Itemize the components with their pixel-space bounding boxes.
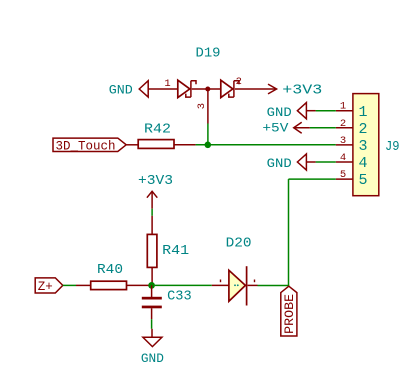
wire 3D_Touch to R42 bbox=[126, 144, 138, 146]
wire Z+ to R40 bbox=[63, 284, 76, 286]
svg-text:GND: GND bbox=[267, 105, 292, 120]
wire pin3 down to node bbox=[207, 124, 209, 145]
wire R42 node to J9 pin3 bbox=[196, 144, 336, 146]
ground GND flag (J9 pin4) bbox=[267, 154, 316, 171]
svg-text:+5V: +5V bbox=[262, 121, 288, 136]
svg-text:Z+: Z+ bbox=[38, 280, 53, 294]
wire D19A cathode to center node bbox=[192, 88, 208, 90]
ground GND flag (left of D19) bbox=[109, 81, 148, 98]
wire J9 pin5 horizontal bbox=[289, 178, 336, 180]
power +3V3 (above R41) bbox=[138, 173, 173, 209]
junction node (R40/R41/C33/D20) bbox=[148, 282, 155, 289]
wire +3V3 to R41 bbox=[151, 209, 153, 216]
svg-text:2: 2 bbox=[236, 76, 242, 88]
capacitor C33 bbox=[142, 289, 192, 309]
wire D19B cathode to +3V3 bbox=[235, 88, 277, 90]
svg-text:GND: GND bbox=[141, 351, 164, 366]
pin R41 bottom to node bbox=[151, 267, 153, 285]
wire center node to D19B anode bbox=[208, 88, 221, 90]
resistor R42 bbox=[138, 121, 174, 148]
wire pin1 of D19 to GND bbox=[148, 88, 178, 90]
svg-text:R40: R40 bbox=[97, 262, 123, 278]
power +3V3 arrow (right) bbox=[268, 82, 322, 98]
svg-text:2: 2 bbox=[340, 118, 346, 130]
J9 pin 3 stub bbox=[336, 144, 353, 146]
resistor R40 bbox=[91, 262, 127, 290]
wire J9 pin5 vertical down to PROBE node bbox=[288, 179, 290, 285]
svg-text:1: 1 bbox=[358, 104, 367, 121]
ground GND flag (J9 pin1) bbox=[267, 103, 316, 120]
pin R40 right to node bbox=[127, 284, 152, 286]
svg-text:1: 1 bbox=[164, 78, 170, 90]
svg-text:3: 3 bbox=[358, 138, 367, 155]
svg-text:5: 5 bbox=[340, 169, 346, 181]
diode D19A (schottky) bbox=[178, 80, 196, 97]
svg-text:+3V3: +3V3 bbox=[282, 82, 322, 98]
resistor R41 bbox=[147, 234, 189, 267]
connector J9 body bbox=[353, 94, 400, 196]
svg-text:GND: GND bbox=[267, 156, 292, 171]
svg-text:R41: R41 bbox=[162, 243, 189, 259]
wire J9 pin4 to GND bbox=[316, 161, 336, 163]
pin of R42 to wire bbox=[174, 144, 196, 146]
diode D19B (schottky) bbox=[221, 80, 239, 97]
diode D20 bbox=[226, 236, 252, 306]
pin C33 top bbox=[151, 285, 153, 297]
pin tick mark left D20 bbox=[220, 280, 222, 283]
svg-text:GND: GND bbox=[109, 82, 133, 97]
svg-text:+3V3: +3V3 bbox=[138, 173, 173, 189]
junction dot D19 pin3 node bbox=[205, 87, 210, 92]
svg-text:3: 3 bbox=[340, 135, 346, 147]
svg-text:PROBE: PROBE bbox=[283, 294, 297, 334]
J9 pin 4 stub bbox=[336, 161, 353, 163]
svg-text:D19: D19 bbox=[196, 46, 221, 62]
svg-text:1: 1 bbox=[340, 101, 346, 113]
power +5V arrow bbox=[262, 121, 309, 136]
svg-text:3D_Touch: 3D_Touch bbox=[55, 139, 115, 153]
junction node (R42 / pin3) bbox=[205, 142, 212, 149]
wire D20 to PROBE node bbox=[258, 285, 290, 287]
wire C33 to GND bbox=[151, 319, 153, 329]
svg-text:D20: D20 bbox=[226, 236, 252, 252]
wire J9 pin1 to GND bbox=[316, 110, 336, 112]
pin R40 left bbox=[76, 284, 91, 286]
global label 3D_Touch bbox=[53, 138, 126, 153]
global label PROBE (vertical) bbox=[281, 286, 297, 336]
pin D20 cathode bbox=[248, 284, 258, 286]
svg-text:4: 4 bbox=[358, 155, 367, 172]
pin 3 of D19 (vertical) bbox=[207, 89, 209, 124]
svg-text:J9: J9 bbox=[385, 140, 400, 155]
svg-text:2: 2 bbox=[358, 121, 367, 138]
pin C33 bottom bbox=[151, 308, 153, 319]
svg-text:C33: C33 bbox=[167, 289, 192, 305]
svg-text:4: 4 bbox=[340, 152, 346, 164]
J9 pin 2 stub bbox=[336, 127, 353, 129]
pin tick mark right D20 bbox=[254, 280, 256, 283]
pin R41 top bbox=[151, 216, 153, 235]
wire J9 pin2 to +5V bbox=[310, 127, 336, 129]
global label Z+ bbox=[35, 278, 63, 294]
svg-text:3: 3 bbox=[196, 103, 208, 109]
wire node to D20 bbox=[155, 284, 212, 286]
ground GND symbol (bottom) bbox=[141, 329, 164, 366]
svg-text:5: 5 bbox=[358, 172, 367, 189]
J9 pin 5 stub bbox=[336, 178, 353, 180]
pin D20 anode bbox=[212, 284, 229, 286]
svg-text:R42: R42 bbox=[144, 121, 171, 137]
J9 pin 1 stub bbox=[336, 110, 353, 112]
